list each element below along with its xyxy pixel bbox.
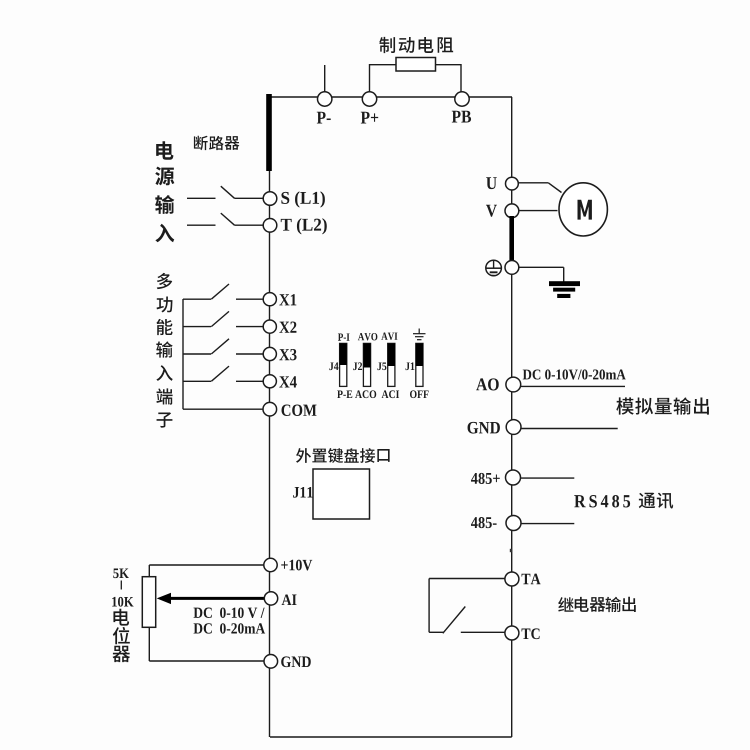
wire: V to motor: [519, 210, 558, 212]
label 电源输入 (power input, vertical): [156, 141, 173, 159]
terminal V: [505, 204, 519, 218]
label OFF: [410, 390, 417, 398]
label J11: [293, 487, 299, 498]
PE circle symbol: [486, 260, 502, 276]
label AVI: [381, 333, 387, 340]
motor M: [559, 183, 607, 236]
wire: AO output: [521, 385, 625, 387]
label P-E: [337, 390, 343, 398]
label 断路器 (circuit breaker): [194, 136, 208, 151]
scan speck on right bus: [510, 549, 512, 552]
terminal AO: [506, 377, 521, 392]
label DC 0-10V/0-20mA: [523, 370, 532, 380]
wire: resistor to PB: [436, 64, 462, 66]
switch: input X2: [183, 326, 211, 328]
label 多功能输入端子 (multi-function input terminals, vertical): [157, 273, 172, 289]
label 继电器输出 (relay output): [558, 597, 573, 612]
wire: 485- lead: [521, 523, 574, 525]
wire: earth terminal to ground symbol: [519, 266, 564, 268]
jumper J2 body: [363, 343, 370, 386]
label 5K~10K 电位器 (potentiometer, vertical): [113, 569, 118, 579]
terminal GND (analog): [264, 655, 278, 669]
terminal X4: [263, 375, 276, 388]
connector J11 box: [313, 469, 370, 519]
label J2: [353, 362, 357, 370]
terminal 485-: [506, 516, 521, 531]
label AVO: [358, 333, 364, 340]
wire: thick V-to-PE segment: [509, 216, 514, 264]
wire: inverter left edge (thin part): [269, 130, 271, 737]
wire: inverter top edge: [270, 96, 512, 98]
wire: inverter bottom edge: [270, 736, 512, 738]
label DC 0-20mA: [194, 623, 203, 633]
ground symbol above jumper J1: [418, 329, 420, 334]
jumper J5 body: [388, 343, 395, 386]
wire: GND output: [521, 428, 618, 430]
label 模拟量输出 (analog output): [616, 397, 634, 414]
label P-I: [338, 333, 343, 340]
terminal T: [263, 219, 277, 233]
resistor: braking resistor body: [396, 58, 436, 72]
switch: breaker pole S: [187, 197, 216, 199]
wire: input common bus: [182, 299, 184, 409]
label 制动电阻 (braking resistor): [379, 37, 395, 53]
wire: stub above P-: [324, 65, 326, 92]
terminal X2: [263, 320, 276, 333]
potentiometer body: [142, 577, 155, 628]
terminal COM: [263, 402, 277, 416]
terminal X1: [263, 293, 276, 306]
label 外置键盘接口 (external keypad port): [296, 448, 311, 463]
terminal +10V: [149, 564, 264, 566]
jumper J4 body: [340, 343, 347, 386]
label J1: [406, 362, 410, 370]
terminal AI: [264, 592, 277, 605]
earth ground symbol: [549, 281, 580, 286]
terminal TA: [505, 572, 519, 586]
label ACI: [382, 390, 389, 398]
terminal S: [263, 192, 277, 206]
relay contact blade: [429, 631, 444, 633]
label ACO: [355, 390, 362, 398]
label RS485 通讯: [574, 495, 585, 507]
wire: pot top lead: [148, 565, 150, 577]
switch: breaker pole T: [187, 224, 216, 226]
label DC 0-10V /: [194, 608, 203, 618]
switch: input X1: [183, 298, 211, 300]
terminal PB: [455, 92, 469, 106]
terminal GND (AO): [506, 420, 521, 435]
wire: pot bottom lead: [148, 627, 150, 661]
jumper J1 body: [416, 343, 423, 386]
switch: input X3: [183, 353, 211, 355]
potentiometer wiper arrow: [157, 593, 266, 604]
terminal P+: [362, 92, 376, 106]
terminal P-: [318, 92, 332, 106]
wire: P+ up to braking resistor: [369, 64, 371, 92]
label J5: [377, 362, 381, 370]
wire: thick input cable segment on left edge: [266, 94, 272, 171]
terminal PE/earth: [505, 261, 519, 275]
wire: U to motor: [518, 182, 548, 184]
terminal TC: [505, 626, 519, 640]
terminal X3: [263, 347, 276, 360]
wire: 485+ lead: [521, 477, 575, 479]
wire: COM row: [183, 408, 263, 410]
switch: input X4: [183, 380, 211, 382]
terminal U: [506, 177, 519, 190]
wire: TA to relay contact: [429, 578, 505, 580]
terminal 485+: [506, 470, 521, 485]
label J4: [329, 362, 333, 370]
wire: inverter right edge: [511, 97, 513, 737]
